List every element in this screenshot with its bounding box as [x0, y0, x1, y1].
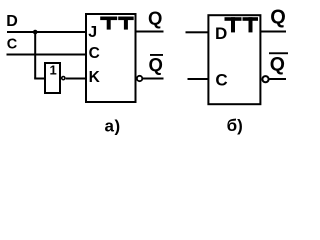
svg-text:а): а): [105, 117, 121, 136]
svg-text:K: K: [89, 69, 101, 86]
svg-text:Q: Q: [148, 7, 162, 28]
svg-text:D: D: [215, 24, 227, 43]
svg-text:Q: Q: [270, 54, 285, 76]
wire: Q output of DD2: [260, 31, 286, 33]
flip-flop DD1 (JK) box: [86, 14, 136, 102]
svg-text:C: C: [215, 70, 227, 89]
inverter U1 box: [45, 63, 60, 93]
wire: Q output of DD1: [137, 31, 164, 33]
inverter U1 output bubble: [62, 77, 65, 80]
svg-text:Q: Q: [270, 6, 286, 28]
wire: D input stub (b): [186, 31, 209, 33]
inversion bubble on /Q output of DD1: [137, 76, 142, 81]
flip-flop DD2 function label TT (drawn): [225, 17, 259, 32]
node: junction of D line and inverter branch: [33, 30, 38, 35]
svg-text:Q: Q: [149, 54, 163, 75]
svg-text:C: C: [89, 45, 100, 62]
output label /Q (b): overline: [269, 52, 288, 54]
flip-flop DD2 (D) box: [208, 15, 260, 104]
svg-text:б): б): [227, 116, 243, 135]
svg-text:J: J: [88, 24, 97, 41]
svg-text:D: D: [6, 13, 18, 30]
wire: /Q output of DD1: [143, 78, 164, 80]
svg-text:1: 1: [50, 63, 57, 78]
flip-flop DD1 function label TT (drawn): [100, 17, 134, 30]
svg-text:C: C: [7, 36, 18, 52]
wire: horizontal branch into inverter input: [34, 78, 44, 80]
wire: D input line: [7, 31, 86, 33]
inversion bubble on /Q output of DD2: [262, 76, 268, 82]
wire: vertical branch from D junction down: [34, 32, 36, 79]
wire: C input stub (b): [188, 78, 209, 80]
wire: /Q output of DD2: [269, 78, 286, 80]
wire: C input line: [7, 54, 87, 56]
output label /Q (a): overline: [150, 54, 163, 56]
wire: inverter output to K input: [66, 78, 86, 80]
